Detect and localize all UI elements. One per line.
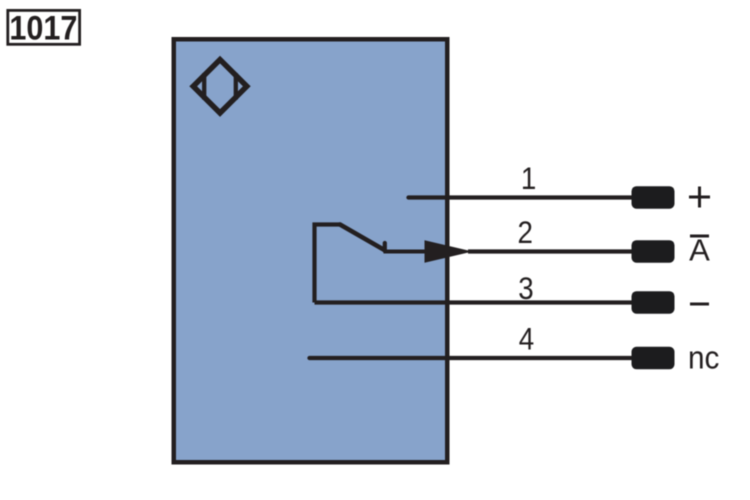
svg-text:nc: nc	[688, 340, 719, 376]
terminal 1	[632, 186, 675, 209]
sensor body	[174, 39, 448, 462]
terminal 3	[632, 291, 675, 314]
svg-text:1017: 1017	[9, 9, 77, 47]
figure label box 1017	[8, 9, 80, 47]
switch bracket top horizontal	[313, 222, 342, 226]
svg-text:4: 4	[519, 322, 534, 357]
switch bracket vertical	[312, 223, 316, 303]
switch blade diagonal	[340, 225, 384, 250]
label plus	[689, 187, 710, 208]
terminal 4	[632, 347, 675, 370]
label minus	[690, 303, 709, 306]
svg-text:A: A	[689, 233, 710, 268]
svg-text:1: 1	[521, 161, 536, 196]
svg-text:3: 3	[518, 271, 533, 306]
diamond sensor symbol	[193, 60, 247, 113]
wire 2	[468, 249, 640, 253]
wire 1	[409, 195, 641, 199]
switch blade tick	[383, 243, 387, 251]
terminal 2	[632, 240, 675, 263]
wire 3	[315, 300, 641, 304]
wire 2 stub to arrow	[384, 250, 431, 254]
label A-bar	[689, 233, 710, 268]
arrow head	[425, 240, 473, 263]
wire 4	[310, 356, 641, 360]
svg-text:2: 2	[517, 215, 532, 250]
